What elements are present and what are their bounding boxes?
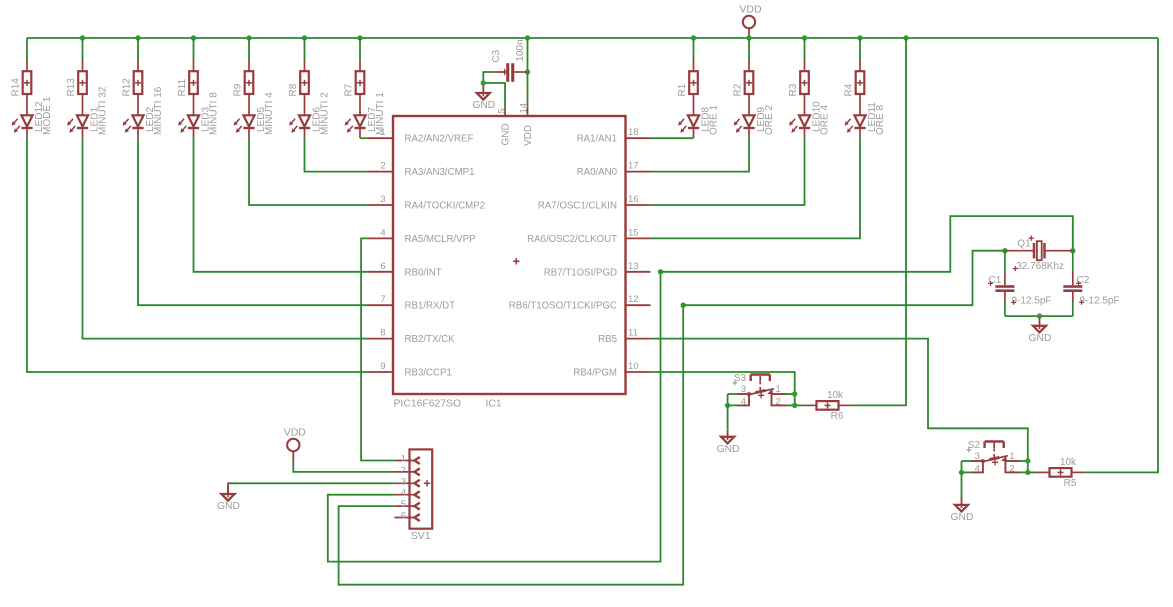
crystal Q1 32.768Khz <box>1005 236 1073 272</box>
junction S2 gnd node <box>959 470 964 475</box>
svg-text:R8: R8 <box>288 83 299 96</box>
junction S3 gnd node <box>725 403 730 408</box>
IC1 pin 4 RA5/MCLR/VPP <box>368 227 476 245</box>
svg-text:16: 16 <box>628 194 639 205</box>
svg-text:R7: R7 <box>344 83 355 96</box>
svg-text:R13: R13 <box>66 78 77 97</box>
svg-text:PIC16F627SO: PIC16F627SO <box>394 399 462 410</box>
IC1 pin 12 RB6/T1OSO/T1CKI/PGC <box>509 294 651 312</box>
svg-text:SV1: SV1 <box>411 530 431 542</box>
wire S2 to GND <box>961 472 963 497</box>
SV1 pin 2 <box>394 465 419 476</box>
IC1 pin 10 RB4/PGM <box>573 361 650 379</box>
wire bus to R13 <box>82 38 84 61</box>
switch S3 <box>728 373 795 407</box>
wire LED10 to IC <box>651 138 805 205</box>
resistor R14 <box>11 60 32 116</box>
SV1 pin 6 <box>394 511 419 522</box>
switch S2 <box>962 440 1029 474</box>
capacitor C3 100n <box>491 39 527 81</box>
svg-text:3: 3 <box>380 194 385 205</box>
wire C3 left to GND and pin 5 <box>483 72 505 107</box>
svg-text:4: 4 <box>975 463 980 474</box>
LED LED10 (ORE 4) <box>789 101 830 138</box>
wire bus to R1 <box>693 38 695 61</box>
svg-text:R12: R12 <box>122 78 133 97</box>
svg-text:GND: GND <box>717 444 740 455</box>
svg-text:RB7/T1OSI/PGD: RB7/T1OSI/PGD <box>544 267 617 278</box>
svg-text:R5: R5 <box>1064 478 1077 489</box>
resistor R6 10k <box>803 390 851 422</box>
svg-text:R14: R14 <box>11 78 22 97</box>
svg-text:32.768Khz: 32.768Khz <box>1016 261 1064 272</box>
svg-text:MINUTI 16: MINUTI 16 <box>153 86 164 135</box>
svg-text:2: 2 <box>380 161 385 172</box>
svg-text:RB1/RX/DT: RB1/RX/DT <box>405 301 456 312</box>
junction on VDD bus x=860 <box>857 35 862 40</box>
svg-text:GND: GND <box>951 512 974 523</box>
svg-text:9: 9 <box>380 361 385 372</box>
ground near crystal <box>1029 318 1052 344</box>
junction crystal left <box>1002 248 1007 253</box>
ground near C3 <box>472 86 495 112</box>
IC1 pin 7 RB1/RX/DT <box>368 294 455 312</box>
resistor R2 <box>733 60 754 116</box>
IC1 pin 1 RA2/AN2/VREF <box>368 127 473 145</box>
IC1 pin 17 RA0/AN0 <box>577 161 651 179</box>
ground near SV1 <box>217 483 240 513</box>
wire bus to R14 <box>26 38 28 61</box>
svg-text:RB4/PGM: RB4/PGM <box>573 368 617 379</box>
wire bus to R2 <box>748 38 750 61</box>
svg-text:2: 2 <box>401 465 406 476</box>
wire VDD to SV1 pin 2 <box>293 461 394 472</box>
wire bus to R4 <box>859 38 861 61</box>
junction on VDD bus x=906 <box>903 35 908 40</box>
svg-text:R1: R1 <box>677 83 688 96</box>
op-amp IC1 PIC16F627SO body <box>393 116 626 410</box>
svg-text:RA0/AN0: RA0/AN0 <box>577 167 618 178</box>
LED LED6 (MINUTI 2) <box>289 92 330 138</box>
svg-text:R2: R2 <box>733 83 744 96</box>
resistor R9 <box>233 60 254 116</box>
wire S2 to R5 <box>1028 471 1038 473</box>
junction on VDD bus x=804.5 <box>802 35 807 40</box>
svg-text:MINUTI 32: MINUTI 32 <box>98 86 109 135</box>
svg-text:C3: C3 <box>491 49 502 62</box>
svg-text:6: 6 <box>401 511 406 522</box>
IC1 pin 6 RB0/INT <box>368 261 442 279</box>
wire RB5 to S2 <box>651 339 1028 473</box>
resistor R11 <box>177 60 198 116</box>
LED LED5 (MINUTI 4) <box>234 92 275 138</box>
wire LED9 to IC <box>651 138 750 171</box>
LED LED3 (MINUTI 8) <box>178 92 219 138</box>
svg-text:1: 1 <box>401 454 406 465</box>
svg-text:2: 2 <box>1009 463 1014 474</box>
svg-text:10k: 10k <box>1060 457 1077 468</box>
junction S3 pin1 <box>792 391 797 396</box>
ground near S2 <box>951 497 974 523</box>
svg-text:RB2/TX/CK: RB2/TX/CK <box>405 334 456 345</box>
svg-text:ORE 1: ORE 1 <box>709 105 720 135</box>
ground near S3 <box>717 429 740 455</box>
LED LED2 (MINUTI 16) <box>123 86 164 138</box>
wire RB4/PGM to S3 <box>651 372 795 405</box>
svg-text:R4: R4 <box>844 83 855 96</box>
junction C3 right <box>525 69 530 74</box>
junction S2 pin2 <box>1025 470 1030 475</box>
wire SV1 pin 4 to RB7/PGD <box>328 272 661 562</box>
svg-text:MINUTI 2: MINUTI 2 <box>320 92 331 135</box>
wire S3 to GND <box>727 405 729 429</box>
junction S2 pin1 <box>1025 458 1030 463</box>
svg-text:8: 8 <box>380 328 385 339</box>
junction RB7 node <box>658 269 663 274</box>
resistor R3 <box>788 60 809 116</box>
wire bus to R11 <box>193 38 195 61</box>
resistor R8 <box>288 60 309 116</box>
svg-text:1: 1 <box>380 127 385 138</box>
svg-text:R3: R3 <box>788 83 799 96</box>
svg-text:13: 13 <box>628 261 639 272</box>
svg-text:R11: R11 <box>177 78 188 96</box>
IC1 pin 5 GND (top) <box>496 107 511 146</box>
SV1 pin 3 <box>394 476 419 487</box>
junction on VDD bus x=304.5 <box>302 35 307 40</box>
svg-text:2: 2 <box>776 396 781 407</box>
junction on VDD bus x=138 <box>135 35 140 40</box>
resistor R5 10k <box>1036 457 1084 489</box>
supply VDD (bottom) <box>284 427 307 461</box>
wire RB7 to crystal right <box>661 216 1073 272</box>
junction crystal right <box>1070 248 1075 253</box>
wire R6 to VDD <box>852 38 906 405</box>
junction on VDD bus x=360 <box>357 35 362 40</box>
LED LED7 (MINUTI 1) <box>345 92 386 138</box>
wire bus to R3 <box>804 38 806 61</box>
SV1 pin 5 <box>394 499 419 510</box>
junction GND/C3 <box>481 80 486 85</box>
wire LED5 to IC <box>249 138 368 205</box>
junction crystal gnd <box>1037 313 1042 318</box>
wire crystal gnd rail <box>1005 315 1073 317</box>
svg-text:Q1: Q1 <box>1017 238 1031 249</box>
svg-text:3: 3 <box>741 384 746 395</box>
wire LED12 to IC <box>27 138 368 372</box>
wire LED7 to IC <box>360 137 368 139</box>
wire LED6 to IC <box>305 138 369 171</box>
wire LED2 to IC <box>138 138 368 305</box>
IC1 pin 9 RB3/CCP1 <box>368 361 452 379</box>
IC1 pin 3 RA4/TOCKI/CMP2 <box>368 194 485 212</box>
svg-text:RA1/AN1: RA1/AN1 <box>577 134 617 145</box>
IC1 pin 16 RA7/OSC1/CLKIN <box>538 194 651 212</box>
svg-text:100n: 100n <box>515 39 526 61</box>
svg-text:1: 1 <box>1009 451 1014 462</box>
svg-text:RA4/TOCKI/CMP2: RA4/TOCKI/CMP2 <box>405 201 486 212</box>
resistor R13 <box>66 60 87 116</box>
svg-text:GND: GND <box>501 123 512 145</box>
wire LED8 to IC <box>651 137 694 139</box>
svg-text:MODE 1: MODE 1 <box>42 96 53 135</box>
junction on VDD bus x=82.5 <box>80 35 85 40</box>
svg-text:9-12.5pF: 9-12.5pF <box>1012 296 1052 307</box>
svg-text:RB5: RB5 <box>598 334 617 345</box>
svg-text:MINUTI 4: MINUTI 4 <box>264 92 275 135</box>
svg-text:6: 6 <box>380 261 385 272</box>
svg-text:ORE 8: ORE 8 <box>875 105 886 135</box>
SV1 pin 4 <box>394 488 419 499</box>
junction on VDD bus x=749 <box>746 35 751 40</box>
junction on VDD bus x=193.5 <box>191 35 196 40</box>
svg-text:1: 1 <box>776 384 781 395</box>
svg-text:RA3/AN3/CMP1: RA3/AN3/CMP1 <box>405 167 475 178</box>
svg-text:R6: R6 <box>831 411 844 422</box>
svg-text:10: 10 <box>628 361 639 372</box>
svg-text:3: 3 <box>975 451 980 462</box>
svg-text:ORE 4: ORE 4 <box>820 105 831 135</box>
svg-text:VDD: VDD <box>523 125 534 146</box>
junction on VDD bus x=527.5 <box>525 35 530 40</box>
IC1 pin 11 RB5 <box>598 328 650 346</box>
svg-text:18: 18 <box>628 127 639 138</box>
wire LED11 to IC <box>651 138 861 238</box>
junction S3 pin2 <box>792 403 797 408</box>
LED LED9 (ORE 2) <box>734 105 775 139</box>
svg-text:3: 3 <box>401 476 406 487</box>
svg-text:GND: GND <box>217 501 240 512</box>
svg-text:15: 15 <box>628 227 639 238</box>
junction on VDD bus x=249 <box>246 35 251 40</box>
wire SV1 pin 3 to GND <box>228 482 394 484</box>
svg-text:RA7/OSC1/CLKIN: RA7/OSC1/CLKIN <box>538 201 617 212</box>
svg-text:11: 11 <box>628 328 638 339</box>
SV1 pin 1 <box>394 454 419 465</box>
LED LED12 (MODE 1) <box>12 96 53 138</box>
svg-text:RA2/AN2/VREF: RA2/AN2/VREF <box>405 134 474 145</box>
svg-text:RA5/MCLR/VPP: RA5/MCLR/VPP <box>405 234 476 245</box>
svg-text:RB6/T1OSO/T1CKI/PGC: RB6/T1OSO/T1CKI/PGC <box>509 301 617 312</box>
wire VDD top bus <box>27 37 1158 39</box>
svg-text:10k: 10k <box>827 390 844 401</box>
svg-text:5: 5 <box>401 499 406 510</box>
svg-text:ORE 2: ORE 2 <box>764 105 775 135</box>
junction RB6 node <box>681 303 686 308</box>
wire R5 to VDD <box>1085 38 1158 472</box>
resistor R12 <box>122 60 143 116</box>
connector SV1 body <box>410 449 433 542</box>
svg-text:9-12.5pF: 9-12.5pF <box>1080 296 1120 307</box>
IC1 pin 2 RA3/AN3/CMP1 <box>368 161 475 179</box>
svg-text:GND: GND <box>1029 333 1052 344</box>
wire pin14 below C3 <box>527 72 529 107</box>
svg-text:R9: R9 <box>233 83 244 96</box>
wire LED1 to IC <box>83 138 369 338</box>
supply VDD (top) <box>739 4 762 38</box>
IC1 pin 14 VDD (top) <box>518 103 534 146</box>
wire S3 to R6 <box>795 404 804 406</box>
IC1 pin 15 RA6/OSC2/CLKOUT <box>527 227 650 245</box>
svg-text:RB0/INT: RB0/INT <box>405 267 442 278</box>
wire bus to R12 <box>137 38 139 61</box>
IC1 pin 8 RB2/TX/CK <box>368 328 455 346</box>
junction on VDD bus x=693.5 <box>691 35 696 40</box>
wire SV1 pin 5 to RB6/PGC <box>339 305 684 585</box>
capacitor C2 9-12.5pF <box>1063 251 1119 316</box>
svg-text:4: 4 <box>741 396 746 407</box>
LED LED11 (ORE 8) <box>845 102 886 138</box>
LED LED8 (ORE 1) <box>678 105 719 139</box>
svg-text:5: 5 <box>496 108 507 113</box>
svg-text:RA6/OSC2/CLKOUT: RA6/OSC2/CLKOUT <box>527 234 617 245</box>
wire RB6 to crystal left <box>683 251 1005 306</box>
svg-text:4: 4 <box>380 227 385 238</box>
svg-text:RB3/CCP1: RB3/CCP1 <box>405 368 452 379</box>
wire LED3 to IC <box>194 138 369 272</box>
svg-text:VDD: VDD <box>284 427 307 439</box>
resistor R4 <box>844 60 865 116</box>
svg-text:VDD: VDD <box>739 4 762 16</box>
resistor R1 <box>677 60 698 116</box>
wire bus to R7 <box>359 38 361 61</box>
wire SV1 pin 1 to RA5/MCLR <box>361 238 394 460</box>
wire bus to R8 <box>304 38 306 61</box>
wire bus to C3/pin14 <box>527 38 529 72</box>
svg-text:12: 12 <box>628 294 639 305</box>
IC1 pin 13 RB7/T1OSI/PGD <box>544 261 651 279</box>
LED LED1 (MINUTI 32) <box>67 86 108 138</box>
svg-text:GND: GND <box>472 100 495 111</box>
svg-text:IC1: IC1 <box>486 399 502 410</box>
IC1 pin 18 RA1/AN1 <box>577 127 651 145</box>
wire bus to R9 <box>248 38 250 61</box>
svg-text:7: 7 <box>380 294 385 305</box>
svg-text:4: 4 <box>401 488 406 499</box>
capacitor C1 9-12.5pF <box>988 251 1051 316</box>
svg-text:17: 17 <box>628 161 639 172</box>
svg-text:MINUTI 8: MINUTI 8 <box>209 92 220 135</box>
resistor R7 <box>344 60 365 116</box>
